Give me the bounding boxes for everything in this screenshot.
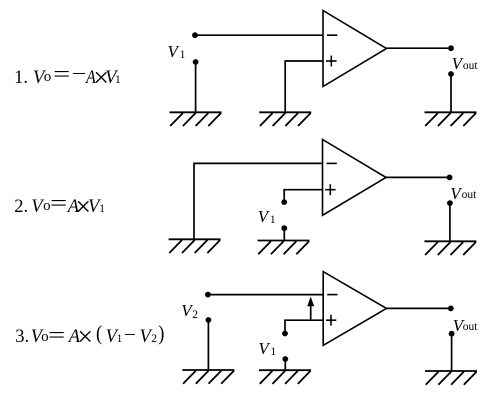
wire: V1 bottom terminal to ground (circuit 2) [283,228,285,240]
label: V2 (circuit 3) [181,302,191,319]
node: V1 bottom terminal (circuit 1) [193,59,199,65]
ground: under non-inverting input (circuit 1) [259,112,311,126]
wire: V1 to inverting input (circuit 1) [195,34,323,36]
label: Vout (circuit 3) [453,317,463,334]
node: Vout top terminal (circuit 3) [448,306,454,312]
op-amp U2 (circuit 2) [323,140,387,216]
node: V1 bottom terminal (circuit 2) [281,225,287,231]
ground: under Vout (circuit 2) [424,241,476,255]
node: V1 top terminal (circuit 3) [282,331,288,337]
label: Vout (circuit 2) [450,185,460,202]
node: Vout bottom terminal (circuit 1) [448,71,454,77]
wire: Vout bottom terminal to ground (circuit 3) [451,334,453,371]
wire: non-inverting input to V1 (circuit 2) [284,190,322,202]
label: V1 (circuit 3) [258,340,268,357]
ground: under inverting input branch (circuit 2) [169,239,221,253]
wire: inverting input to ground (circuit 2) [194,163,323,239]
node: V1 top terminal (circuit 1) [192,32,198,38]
ground: under V1 (circuit 3) [259,370,311,384]
op-amp U3 (circuit 3) [323,272,386,346]
ground: under V2 (circuit 3) [182,370,234,384]
ground: under Vout (circuit 3) [425,371,477,385]
node: Vout top terminal (circuit 1) [448,45,454,51]
node: V1 top terminal (circuit 2) [281,199,287,205]
ground: under V1 (circuit 1) [170,112,222,126]
formula 1: Vo = -A x V1 [0,0,1,1]
node: Vout bottom terminal (circuit 3) [449,331,455,337]
label: V1 (circuit 1) [168,43,178,60]
wire: non-inverting input to V1 (circuit 3) [285,320,323,333]
wire: V2 bottom terminal to ground (circuit 3) [207,320,209,370]
wire: op-amp output to Vout (circuit 2) [386,176,450,178]
wire: V1 bottom terminal to ground (circuit 3) [284,359,286,370]
op-amp U1 (circuit 1) [323,11,387,87]
node: V2 bottom terminal (circuit 3) [206,317,212,323]
label: Vout (circuit 1) [452,55,462,72]
node: V2 top terminal (circuit 3) [205,292,211,298]
label: V1 (circuit 2) [258,208,268,225]
formula 3: Vo = A x (V1 - V2) [0,0,1,1]
wire: op-amp output to Vout (circuit 1) [387,47,452,49]
wire: V2 to inverting input (circuit 3) [208,294,323,296]
ground: under Vout (circuit 1) [425,112,477,126]
wire: Vout bottom terminal to ground (circuit 1) [450,74,452,112]
node: Vout top terminal (circuit 2) [447,175,453,181]
node: Vout bottom terminal (circuit 2) [447,200,453,206]
formula 2: Vo = A x V1 [0,0,1,1]
ground: under V1 (circuit 2) [258,241,310,255]
wire: Vout bottom terminal to ground (circuit 2) [449,203,451,241]
node: V1 bottom terminal (circuit 3) [282,356,288,362]
wire: V1 bottom terminal to ground (circuit 1) [195,62,197,112]
arrow: from non-inverting wire up to inverting wire (circuit 3) [307,297,314,321]
wire: op-amp output to Vout (circuit 3) [387,307,451,309]
wire: non-inverting input to ground (circuit 1) [285,61,323,112]
